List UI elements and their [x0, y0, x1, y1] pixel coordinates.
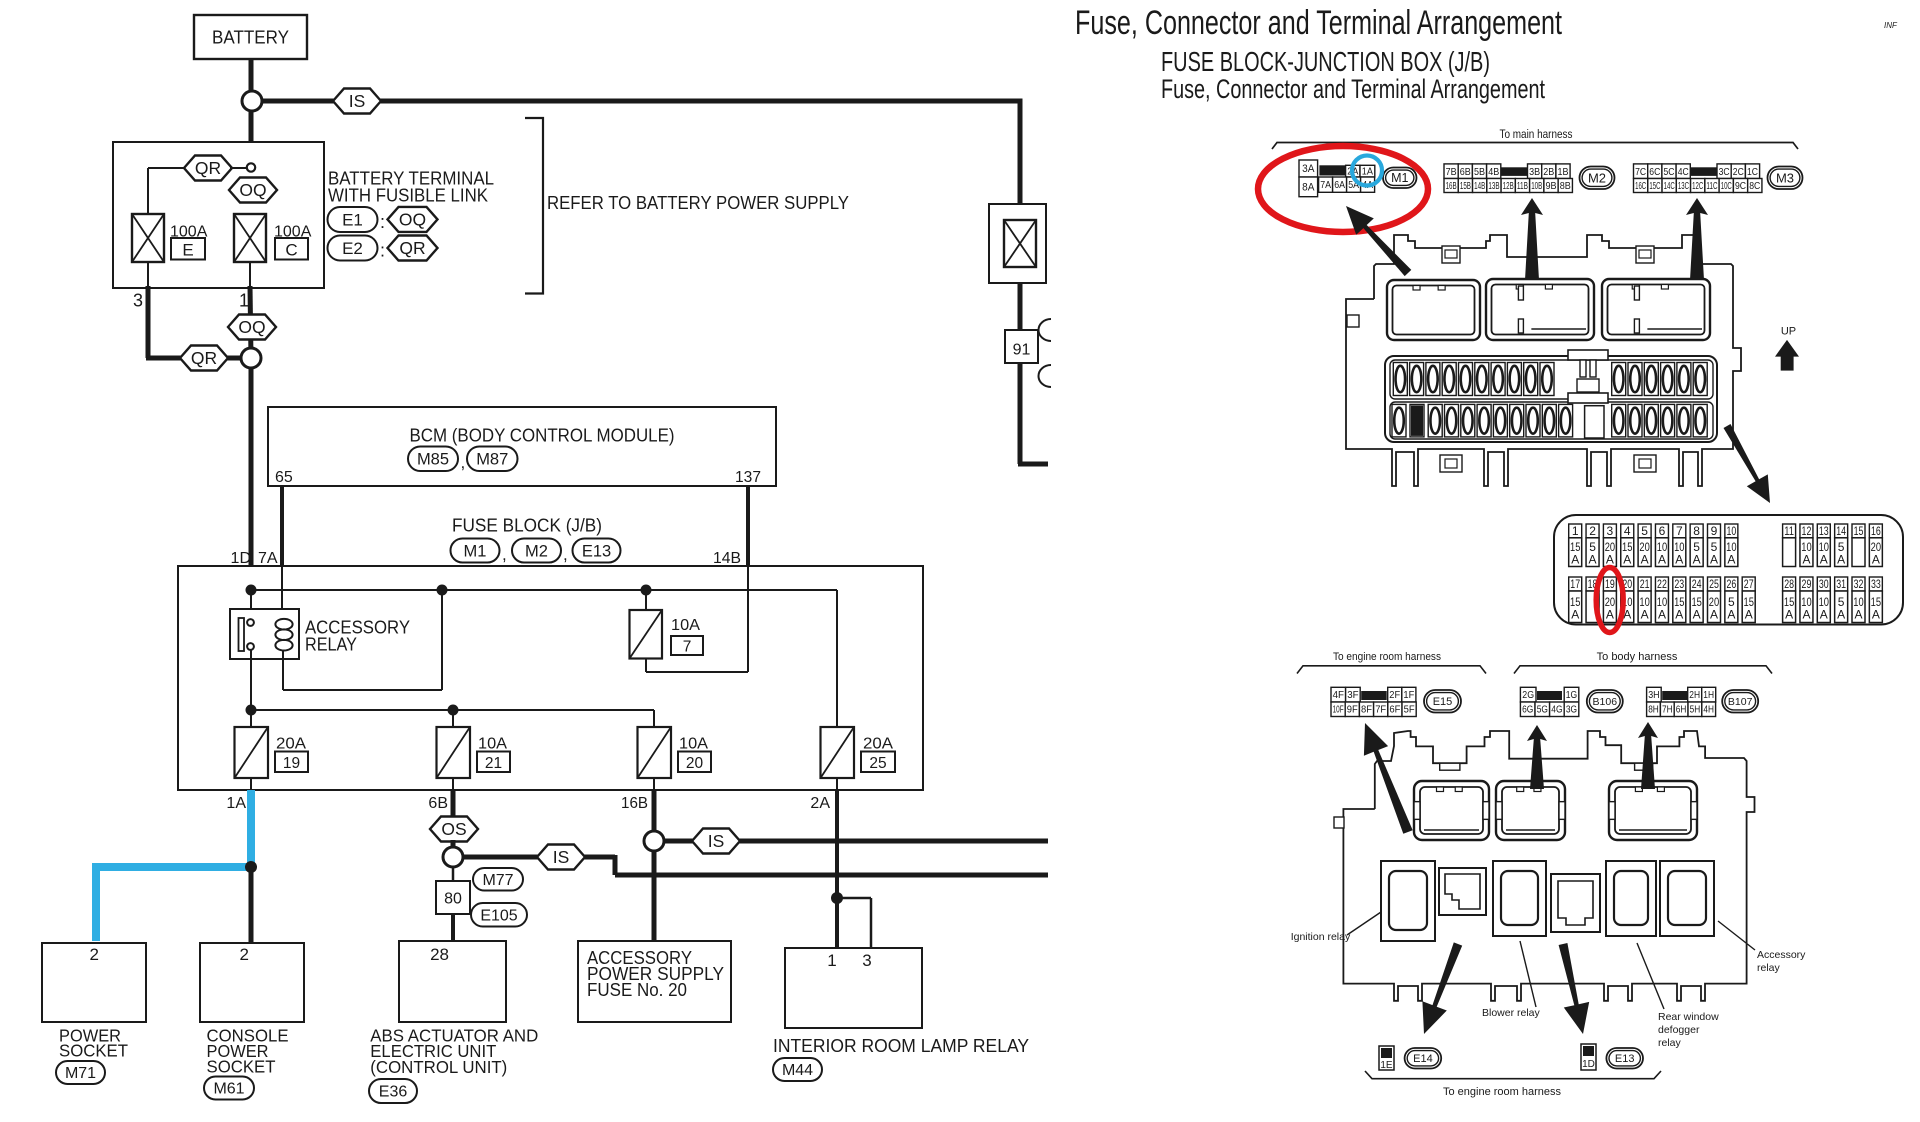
- svg-text:1E: 1E: [1380, 1060, 1393, 1071]
- svg-text:20: 20: [686, 755, 704, 772]
- svg-text:6B: 6B: [1460, 166, 1471, 178]
- svg-text:M2: M2: [525, 542, 548, 560]
- svg-text:22: 22: [1657, 577, 1667, 591]
- svg-text:A: A: [1589, 553, 1597, 567]
- svg-text:E13: E13: [582, 542, 611, 560]
- svg-text:,: ,: [502, 545, 507, 564]
- svg-text:29: 29: [1802, 577, 1812, 591]
- svg-text:16C: 16C: [1635, 181, 1646, 192]
- svg-text:5H: 5H: [1690, 705, 1701, 716]
- svg-text:3G: 3G: [1566, 705, 1577, 716]
- svg-text:4F: 4F: [1333, 689, 1344, 701]
- svg-text:4B: 4B: [1488, 166, 1499, 178]
- svg-text:10A: 10A: [478, 736, 507, 753]
- svg-text:Accessory: Accessory: [1757, 949, 1806, 961]
- svg-text:Blower relay: Blower relay: [1482, 1007, 1541, 1019]
- svg-text:10A: 10A: [671, 617, 700, 634]
- svg-text:14C: 14C: [1664, 181, 1675, 192]
- svg-text:13C: 13C: [1678, 181, 1689, 192]
- svg-text:28: 28: [430, 945, 449, 964]
- svg-text:E15: E15: [1433, 696, 1453, 708]
- svg-text:25: 25: [1709, 577, 1719, 591]
- svg-text:To engine room harness: To engine room harness: [1443, 1086, 1562, 1098]
- svg-text:A: A: [1854, 607, 1862, 621]
- svg-text:7A: 7A: [258, 550, 278, 567]
- svg-text:RELAY: RELAY: [305, 635, 357, 655]
- svg-text:33: 33: [1871, 577, 1881, 591]
- svg-text:3: 3: [862, 951, 871, 970]
- svg-text:A: A: [1641, 553, 1649, 567]
- svg-text:3B: 3B: [1529, 166, 1540, 178]
- svg-text:M1: M1: [1391, 171, 1408, 185]
- svg-text:A: A: [1606, 553, 1614, 567]
- svg-text:A: A: [1623, 553, 1631, 567]
- svg-text:M2: M2: [1588, 170, 1606, 185]
- svg-text:8F: 8F: [1361, 705, 1372, 716]
- svg-text:1: 1: [239, 290, 249, 310]
- svg-text:A: A: [1820, 553, 1828, 567]
- svg-text:FUSE BLOCK (J/B): FUSE BLOCK (J/B): [452, 516, 602, 536]
- svg-text:A: A: [1872, 607, 1880, 621]
- svg-text:IS: IS: [349, 91, 366, 111]
- svg-text:(CONTROL UNIT): (CONTROL UNIT): [370, 1057, 507, 1077]
- svg-text:FUSE BLOCK-JUNCTION BOX (J/B): FUSE BLOCK-JUNCTION BOX (J/B): [1161, 46, 1490, 77]
- svg-text:OQ: OQ: [239, 180, 266, 200]
- svg-text:3: 3: [133, 290, 143, 310]
- svg-text:B107: B107: [1728, 696, 1753, 708]
- svg-text:16B: 16B: [621, 795, 648, 812]
- svg-text:5: 5: [1641, 524, 1648, 538]
- svg-text:8C: 8C: [1749, 181, 1760, 192]
- svg-text:A: A: [1802, 607, 1810, 621]
- svg-text:A: A: [1658, 553, 1666, 567]
- svg-text:1F: 1F: [1403, 689, 1414, 701]
- svg-text:E36: E36: [379, 1084, 408, 1101]
- svg-text:21: 21: [485, 755, 502, 772]
- svg-text:E105: E105: [480, 907, 517, 924]
- svg-text::: :: [380, 212, 385, 232]
- svg-text:5C: 5C: [1664, 166, 1675, 178]
- svg-text:INF: INF: [1884, 21, 1898, 30]
- svg-text:M44: M44: [782, 1062, 813, 1079]
- svg-text:,: ,: [563, 545, 568, 564]
- svg-text:E13: E13: [1615, 1053, 1635, 1065]
- svg-text:IS: IS: [553, 847, 570, 867]
- svg-text:FUSE No. 20: FUSE No. 20: [587, 980, 687, 1000]
- svg-text:8H: 8H: [1648, 705, 1659, 716]
- svg-text:1A: 1A: [226, 795, 246, 812]
- svg-text:31: 31: [1836, 577, 1846, 591]
- svg-text:A: A: [1571, 607, 1579, 621]
- svg-text:3H: 3H: [1648, 689, 1659, 701]
- svg-text:14: 14: [1836, 524, 1846, 538]
- svg-text:1A: 1A: [1362, 167, 1373, 178]
- svg-text:7: 7: [683, 639, 692, 656]
- svg-text:2G: 2G: [1522, 689, 1534, 701]
- svg-text::: :: [380, 241, 385, 261]
- svg-text:23: 23: [1674, 577, 1684, 591]
- svg-text:4H: 4H: [1703, 705, 1714, 716]
- svg-text:8B: 8B: [1560, 181, 1571, 192]
- svg-text:6H: 6H: [1676, 705, 1687, 716]
- svg-text:A: A: [1710, 607, 1718, 621]
- svg-text:4C: 4C: [1678, 166, 1689, 178]
- svg-text:13: 13: [1819, 524, 1829, 538]
- svg-text:3C: 3C: [1719, 166, 1730, 178]
- svg-text:10F: 10F: [1333, 705, 1344, 716]
- svg-text:A: A: [1675, 607, 1683, 621]
- svg-text:14B: 14B: [1474, 181, 1485, 192]
- svg-text:A: A: [1675, 553, 1683, 567]
- svg-text:1G: 1G: [1566, 689, 1577, 701]
- svg-text:21: 21: [1640, 577, 1650, 591]
- svg-text:2C: 2C: [1733, 166, 1744, 178]
- svg-text:B106: B106: [1593, 696, 1618, 708]
- svg-text:6A: 6A: [1334, 179, 1345, 191]
- svg-text:12B: 12B: [1503, 181, 1514, 192]
- svg-text:7B: 7B: [1446, 166, 1457, 178]
- svg-text:15: 15: [1854, 524, 1864, 538]
- svg-text:A: A: [1837, 607, 1845, 621]
- svg-text:1D: 1D: [1582, 1059, 1595, 1070]
- svg-text:28: 28: [1784, 577, 1794, 591]
- svg-text:6G: 6G: [1522, 705, 1533, 716]
- svg-text:To body harness: To body harness: [1597, 651, 1678, 663]
- svg-text:M87: M87: [476, 451, 508, 469]
- svg-text:relay: relay: [1757, 962, 1781, 974]
- svg-text:M61: M61: [213, 1081, 244, 1098]
- svg-text:E2: E2: [342, 239, 363, 258]
- svg-text:1: 1: [1572, 524, 1579, 538]
- svg-text:SOCKET: SOCKET: [207, 1056, 276, 1076]
- svg-text:A: A: [1745, 607, 1753, 621]
- svg-text:BCM (BODY CONTROL MODULE): BCM (BODY CONTROL MODULE): [410, 426, 675, 446]
- svg-text:A: A: [1727, 553, 1735, 567]
- svg-text:QR: QR: [195, 158, 221, 178]
- svg-text:5G: 5G: [1537, 705, 1548, 716]
- svg-text:15B: 15B: [1460, 181, 1471, 192]
- svg-text:A: A: [1727, 607, 1735, 621]
- svg-text:UP: UP: [1781, 326, 1796, 338]
- svg-text:2B: 2B: [1543, 166, 1554, 178]
- svg-text:10A: 10A: [679, 736, 708, 753]
- svg-text:26: 26: [1726, 577, 1736, 591]
- svg-text:6B: 6B: [428, 795, 448, 812]
- svg-text:To engine room harness: To engine room harness: [1333, 651, 1441, 663]
- svg-text:7: 7: [1676, 524, 1683, 538]
- svg-text:A: A: [1571, 553, 1579, 567]
- svg-text:M77: M77: [482, 872, 513, 889]
- svg-text:A: A: [1710, 553, 1718, 567]
- svg-text:17: 17: [1570, 577, 1580, 591]
- svg-text:16B: 16B: [1446, 181, 1457, 192]
- svg-text:13B: 13B: [1488, 181, 1499, 192]
- svg-text:8: 8: [1693, 524, 1700, 538]
- svg-text:QR: QR: [399, 238, 425, 258]
- svg-text:6C: 6C: [1649, 166, 1660, 178]
- svg-text:M71: M71: [65, 1065, 96, 1082]
- svg-text:,: ,: [461, 453, 466, 472]
- svg-text:2F: 2F: [1389, 689, 1400, 701]
- svg-text:A: A: [1693, 553, 1701, 567]
- svg-text:C: C: [285, 241, 297, 260]
- svg-text:BATTERY: BATTERY: [212, 28, 289, 48]
- svg-text:137: 137: [735, 469, 761, 486]
- svg-text:M3: M3: [1776, 170, 1794, 185]
- svg-text:20A: 20A: [276, 736, 306, 753]
- svg-text:9C: 9C: [1735, 181, 1746, 192]
- svg-text:32: 32: [1854, 577, 1864, 591]
- svg-text:A: A: [1785, 607, 1793, 621]
- svg-text:12: 12: [1802, 524, 1812, 538]
- svg-text:REFER TO BATTERY POWER SUPPLY: REFER TO BATTERY POWER SUPPLY: [547, 193, 849, 213]
- svg-text:27: 27: [1744, 577, 1754, 591]
- svg-text:25: 25: [869, 755, 886, 772]
- svg-text:7A: 7A: [1320, 179, 1331, 191]
- svg-text:OS: OS: [441, 819, 466, 839]
- svg-text:1H: 1H: [1703, 689, 1714, 701]
- svg-text:11: 11: [1784, 524, 1794, 538]
- svg-text:A: A: [1802, 553, 1810, 567]
- svg-text:2: 2: [90, 945, 99, 964]
- svg-text:A: A: [1872, 553, 1880, 567]
- svg-text:A: A: [1693, 607, 1701, 621]
- svg-text:7C: 7C: [1635, 166, 1646, 178]
- svg-text:A: A: [1641, 607, 1649, 621]
- svg-text:8A: 8A: [1302, 182, 1315, 194]
- svg-text:5B: 5B: [1474, 166, 1485, 178]
- svg-text:E14: E14: [1413, 1053, 1433, 1065]
- svg-text:16: 16: [1871, 524, 1881, 538]
- svg-text:65: 65: [275, 469, 293, 486]
- svg-text:19: 19: [1605, 577, 1615, 591]
- svg-text:30: 30: [1819, 577, 1829, 591]
- svg-text:A: A: [1820, 607, 1828, 621]
- svg-text:11C: 11C: [1706, 181, 1717, 192]
- svg-text:9F: 9F: [1347, 705, 1358, 716]
- svg-text:2H: 2H: [1689, 689, 1700, 701]
- svg-text:Ignition relay: Ignition relay: [1291, 931, 1351, 943]
- svg-text:9: 9: [1711, 524, 1718, 538]
- svg-text:7H: 7H: [1662, 705, 1673, 716]
- svg-text:M85: M85: [417, 451, 449, 469]
- svg-text:E1: E1: [342, 210, 363, 229]
- svg-text:10: 10: [1726, 524, 1736, 538]
- svg-text:QR: QR: [191, 348, 217, 368]
- svg-text:3A: 3A: [1302, 163, 1315, 175]
- svg-text:3: 3: [1607, 524, 1614, 538]
- svg-text:E: E: [182, 241, 193, 260]
- svg-text:15C: 15C: [1649, 181, 1660, 192]
- svg-text:1: 1: [827, 951, 836, 970]
- svg-text:M1: M1: [464, 542, 487, 560]
- svg-text:Fuse, Connector and Terminal A: Fuse, Connector and Terminal Arrangement: [1161, 74, 1545, 104]
- svg-text:11B: 11B: [1517, 181, 1528, 192]
- svg-text:2: 2: [1589, 524, 1596, 538]
- svg-text:A: A: [1837, 553, 1845, 567]
- svg-text:2: 2: [240, 945, 249, 964]
- svg-text:WITH FUSIBLE LINK: WITH FUSIBLE LINK: [328, 185, 488, 205]
- svg-text:20A: 20A: [863, 736, 893, 753]
- svg-text:80: 80: [444, 891, 462, 908]
- svg-text:6: 6: [1659, 524, 1666, 538]
- svg-text:To main harness: To main harness: [1500, 127, 1573, 141]
- svg-text:5F: 5F: [1404, 705, 1415, 716]
- svg-text:1D: 1D: [231, 550, 251, 567]
- svg-text:14B: 14B: [713, 550, 741, 567]
- svg-text:2A: 2A: [810, 795, 830, 812]
- svg-text:OQ: OQ: [238, 317, 265, 337]
- svg-text:12C: 12C: [1692, 181, 1703, 192]
- svg-text:4: 4: [1624, 524, 1631, 538]
- svg-text:A: A: [1606, 607, 1614, 621]
- svg-text:IS: IS: [708, 831, 725, 851]
- svg-text:9B: 9B: [1545, 181, 1556, 192]
- svg-text:6F: 6F: [1389, 705, 1400, 716]
- svg-text:1C: 1C: [1747, 166, 1758, 178]
- svg-text:4G: 4G: [1551, 705, 1562, 716]
- svg-text:Rear window: Rear window: [1658, 1011, 1719, 1023]
- svg-text:3F: 3F: [1347, 689, 1358, 701]
- svg-text:relay: relay: [1658, 1037, 1682, 1049]
- svg-text:10C: 10C: [1721, 181, 1732, 192]
- svg-text:10B: 10B: [1531, 181, 1542, 192]
- svg-text:defogger: defogger: [1658, 1024, 1700, 1036]
- svg-text:Fuse, Connector and Terminal A: Fuse, Connector and Terminal Arrangement: [1075, 4, 1562, 42]
- svg-text:1B: 1B: [1558, 166, 1569, 178]
- svg-text:19: 19: [283, 755, 300, 772]
- svg-text:OQ: OQ: [399, 210, 426, 230]
- svg-text:7F: 7F: [1375, 705, 1386, 716]
- svg-text:INTERIOR ROOM LAMP RELAY: INTERIOR ROOM LAMP RELAY: [773, 1036, 1029, 1056]
- svg-text:24: 24: [1692, 577, 1702, 591]
- svg-text:91: 91: [1013, 342, 1031, 359]
- svg-text:A: A: [1658, 607, 1666, 621]
- svg-text:SOCKET: SOCKET: [59, 1041, 128, 1061]
